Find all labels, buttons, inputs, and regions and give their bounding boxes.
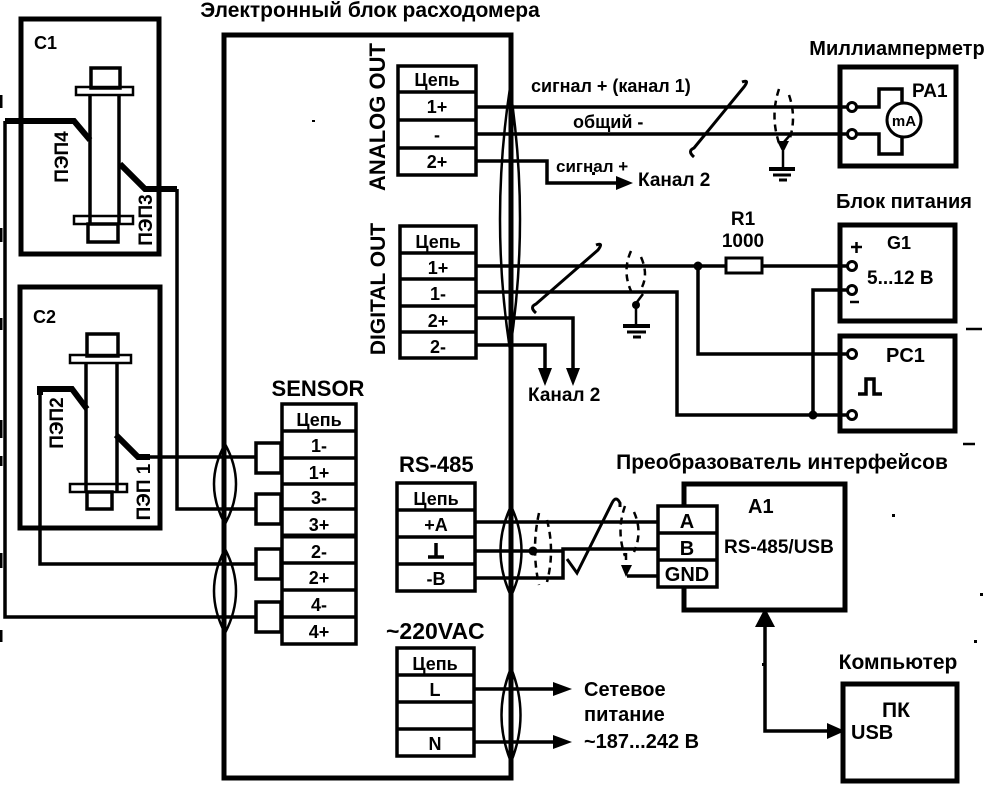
wire GND stub — [627, 574, 658, 578]
connector plug pair 2 — [256, 549, 281, 579]
svg-text:Цепь: Цепь — [415, 232, 460, 252]
svg-text:общий -: общий - — [573, 112, 643, 132]
svg-text:USB: USB — [851, 722, 893, 744]
svg-text:+A: +A — [424, 515, 448, 535]
stray scan dash lower right — [963, 443, 975, 446]
svg-text:ПК: ПК — [882, 699, 910, 722]
pulse counter PC1 box — [840, 336, 955, 431]
junction node PC1 input — [809, 411, 818, 420]
svg-text:~187...242 В: ~187...242 В — [584, 731, 699, 753]
transducer ПЭП1 wedge — [116, 435, 155, 520]
svg-text:2-: 2- — [311, 542, 327, 562]
svg-text:Цепь: Цепь — [413, 489, 458, 509]
C1 pipe transducer drawing — [74, 68, 133, 242]
svg-text:ПЭП3: ПЭП3 — [136, 194, 157, 245]
svg-text:A: A — [680, 511, 694, 533]
cable shield lens analog/digital outputs — [500, 88, 520, 350]
PA1 terminal circles — [848, 103, 857, 139]
transducer ПЭП2 wedge — [40, 389, 87, 449]
connector plug pair 1 — [256, 443, 281, 473]
svg-text:5...12 В: 5...12 В — [867, 268, 934, 289]
svg-text:DIGITAL OUT: DIGITAL OUT — [367, 223, 390, 355]
svg-text:Цепь: Цепь — [414, 70, 459, 90]
svg-text:2-: 2- — [430, 337, 446, 357]
shield drain arrow to GND — [621, 553, 632, 577]
wire C1 ПЭП4 to connector 4 — [5, 121, 256, 617]
svg-text:Преобразователь интерфейсов: Преобразователь интерфейсов — [616, 451, 948, 474]
svg-text:B: B — [680, 538, 694, 560]
shield arcs digital — [627, 251, 646, 291]
svg-text:RS-485/USB: RS-485/USB — [724, 537, 834, 558]
computer ПК box — [843, 684, 957, 781]
shield arcs RS-485 near A1 — [621, 506, 639, 556]
svg-text:Цепь: Цепь — [412, 654, 457, 674]
shield drain and ground analog — [769, 134, 795, 180]
svg-text:Миллиамперметр: Миллиамперметр — [809, 38, 984, 60]
twisted pair mark digital — [533, 244, 601, 313]
C2 pipe transducer drawing — [70, 334, 131, 509]
connector plug pair 3 — [256, 494, 281, 524]
DIGITAL OUT terminal table — [400, 226, 476, 358]
sensor C2 box — [20, 287, 160, 528]
shield drain and ground digital — [623, 294, 650, 337]
svg-text:Цепь: Цепь — [296, 410, 341, 430]
wire 220VAC L with arrow — [474, 682, 572, 696]
svg-text:-: - — [434, 125, 440, 145]
svg-text:~220VAC: ~220VAC — [386, 618, 485, 644]
milliammeter PA1 box — [840, 67, 956, 166]
svg-text:сигнал + (канал 1): сигнал + (канал 1) — [531, 76, 691, 96]
wire G1 minus to PC1 bottom — [813, 290, 847, 415]
svg-text:ANALOG OUT: ANALOG OUT — [365, 43, 390, 191]
svg-text:L: L — [430, 680, 441, 700]
svg-text:1+: 1+ — [428, 258, 449, 278]
cable shield lens sensor pair 1/3 — [214, 444, 236, 524]
G1 terminal circles — [848, 262, 857, 295]
wire RS-485 +A to A — [475, 520, 658, 524]
power supply G1 box — [840, 225, 955, 321]
SENSOR terminal table — [282, 404, 356, 644]
PC1 terminal circles — [848, 350, 857, 420]
junction node digital 1+ — [694, 262, 703, 271]
shield arcs RS-485 near lens — [535, 513, 551, 585]
RS-485 terminal table — [397, 483, 475, 591]
label Сетевое питание — [584, 679, 699, 753]
twisted pair mark RS-485 — [567, 499, 620, 573]
transducer ПЭП4 wedge — [5, 121, 90, 183]
wire C1 ПЭП3 to connector 3 — [177, 189, 256, 509]
twisted pair mark analog — [691, 81, 747, 157]
svg-text:1-: 1- — [430, 284, 446, 304]
wire analog 2+ to channel 2 arrow — [476, 161, 633, 190]
svg-text:ПЭП 1: ПЭП 1 — [134, 463, 155, 520]
svg-text:N: N — [429, 734, 442, 754]
svg-text:Блок питания: Блок питания — [836, 191, 972, 213]
svg-text:1+: 1+ — [309, 463, 330, 483]
wire digital 1- to PC1 — [476, 292, 847, 415]
wire C2 ПЭП2 to connector 2 — [40, 391, 256, 564]
interface converter A1 box — [684, 484, 845, 610]
svg-text:GND: GND — [665, 564, 709, 586]
svg-text:PC1: PC1 — [886, 345, 925, 367]
svg-text:mA: mA — [892, 113, 916, 130]
svg-text:SENSOR: SENSOR — [272, 376, 365, 401]
svg-text:4+: 4+ — [309, 622, 330, 642]
svg-text:A1: A1 — [748, 496, 774, 518]
stray scan dash right — [966, 328, 982, 331]
cable shield lens 220VAC — [502, 668, 521, 762]
wire 220VAC N with arrow — [474, 735, 572, 749]
svg-text:питание: питание — [584, 704, 665, 726]
svg-text:Электронный блок расходомера: Электронный блок расходомера — [200, 0, 540, 22]
A1 terminal table A B GND — [658, 506, 717, 587]
svg-text:1-: 1- — [311, 436, 327, 456]
svg-text:2+: 2+ — [309, 568, 330, 588]
scan edge marks left margin — [0, 95, 3, 642]
enclosure: electronic flow-meter block — [224, 35, 511, 778]
~220VAC terminal table — [397, 648, 474, 756]
svg-text:2+: 2+ — [427, 152, 448, 172]
cable shield lens RS-485 — [501, 506, 522, 596]
junction node shield — [529, 547, 538, 556]
resistor R1 — [722, 209, 764, 273]
svg-text:RS-485: RS-485 — [399, 452, 474, 477]
svg-text:G1: G1 — [887, 233, 911, 253]
svg-text:Канал 2: Канал 2 — [528, 385, 600, 406]
wire digital 1+ to R1 and G1 — [476, 264, 847, 268]
shield arcs analog — [775, 89, 794, 143]
svg-text:Канал 2: Канал 2 — [638, 170, 710, 191]
USB wire from PC to A1 with arrows — [755, 608, 845, 739]
wire digital 2- channel 2 arrow — [476, 345, 552, 386]
wire analog common — [476, 132, 847, 136]
sensor C1 box — [21, 19, 159, 254]
svg-text:C1: C1 — [34, 33, 57, 53]
svg-text:R1: R1 — [731, 209, 756, 230]
connector plug pair 4 — [256, 602, 281, 632]
scan specks — [312, 120, 983, 666]
svg-text:3+: 3+ — [309, 515, 330, 535]
transducer ПЭП3 wedge — [120, 164, 177, 246]
wire RS-485 shield — [475, 549, 563, 553]
wire C2 ПЭП1 to connector 1 — [145, 455, 256, 459]
svg-text:2+: 2+ — [428, 311, 449, 331]
svg-text:4-: 4- — [311, 595, 327, 615]
svg-text:1+: 1+ — [427, 97, 448, 117]
svg-text:ПЭП4: ПЭП4 — [52, 131, 73, 183]
wire analog 1+ signal channel 1 — [476, 105, 847, 109]
wire junction to PC1 top — [698, 266, 847, 354]
meter mA symbol — [857, 89, 921, 154]
svg-text:1000: 1000 — [722, 231, 764, 252]
wire digital 2+ channel 2 arrow — [476, 318, 580, 386]
svg-text:PA1: PA1 — [912, 81, 948, 102]
svg-text:Компьютер: Компьютер — [839, 651, 958, 674]
svg-text:3-: 3- — [311, 488, 327, 508]
svg-text:Сетевое: Сетевое — [584, 679, 666, 701]
cable shield lens sensor pair 2/4 — [214, 549, 236, 633]
svg-text:C2: C2 — [33, 307, 56, 327]
wire RS-485 -B to B — [475, 549, 658, 578]
ANALOG OUT terminal table — [398, 66, 476, 175]
svg-text:ПЭП2: ПЭП2 — [47, 397, 68, 448]
svg-text:-B: -B — [427, 569, 446, 589]
